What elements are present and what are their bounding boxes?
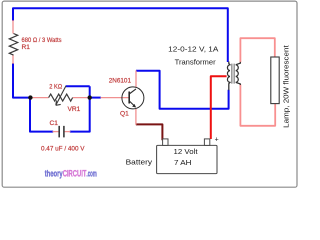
wire: blue wiper horizontal: [66, 85, 90, 87]
svg-text:Q1: Q1: [120, 110, 129, 117]
node B junction dot: [88, 95, 92, 99]
lead: R1 bottom: [12, 55, 14, 64]
lead: R1 top: [12, 20, 14, 34]
lead: VR1 left: [30, 97, 48, 99]
wire: blue from R1 bottom down to node A level: [13, 63, 30, 98]
lead: Q1 emitter: [135, 109, 137, 125]
wire: top blue rail from R1 top to transformer primary top: [13, 8, 228, 62]
wire: blue C1 right up through node B to wiper level: [70, 86, 90, 131]
node A junction dot: [28, 95, 32, 99]
capacitor C1 plates: [59, 126, 64, 137]
transistor Q1 collector diagonal: [129, 89, 136, 94]
transformer T1 secondary winding (right, 3 bumps): [236, 62, 241, 85]
transformer T1 primary winding (left, 3 bumps): [227, 62, 229, 91]
svg-text:Lamp, 20W fluorescent: Lamp, 20W fluorescent: [282, 45, 291, 128]
wire: salmon lamp bottom to secondary bottom: [240, 84, 275, 125]
transistor Q1 base bar: [128, 92, 130, 104]
lead: C1 right: [64, 131, 70, 133]
svg-text:Transformer: Transformer: [175, 58, 217, 67]
svg-text:12-0-12 V, 1A: 12-0-12 V, 1A: [168, 44, 218, 53]
battery rectangle: [157, 145, 217, 173]
svg-text:680 Ω / 3 Watts: 680 Ω / 3 Watts: [22, 37, 63, 44]
svg-text:0.47 uF / 400 V: 0.47 uF / 400 V: [41, 146, 85, 153]
wire: blue collector to transformer primary bottom: [136, 71, 229, 109]
wire: blue stub node B to base lead: [90, 97, 101, 99]
svg-text:+: +: [215, 136, 219, 143]
resistor R1 zigzag: [9, 34, 17, 56]
svg-text:theory: theory: [45, 169, 64, 179]
svg-text:R1: R1: [22, 44, 31, 51]
svg-text:2 KΩ: 2 KΩ: [49, 84, 62, 91]
transformer core lines: [232, 64, 234, 84]
lead: Q1 base: [101, 97, 129, 99]
wire: blue node A down to C1 left: [30, 98, 53, 132]
wire: red battery plus to transformer tap: [211, 76, 227, 139]
transistor Q1 emitter diagonal with arrow: [129, 101, 135, 107]
svg-text:Battery: Battery: [126, 157, 153, 166]
wire: salmon secondary top to lamp: [240, 38, 274, 62]
svg-text:C1: C1: [50, 120, 59, 127]
svg-text:VR1: VR1: [68, 106, 81, 113]
lead: C1 left: [53, 131, 59, 133]
potentiometer VR1 zigzag: [49, 94, 73, 101]
lamp rectangle: [271, 57, 279, 104]
battery terminal left: [163, 139, 168, 146]
lead: VR1 right: [73, 97, 90, 99]
battery terminal right: [204, 139, 209, 146]
svg-text:2N6101: 2N6101: [109, 78, 132, 85]
transistor Q1 circle: [122, 87, 144, 109]
potentiometer VR1 wiper arrow: [56, 86, 66, 106]
svg-text:CIRCUIT: CIRCUIT: [63, 169, 87, 179]
svg-text:.com: .com: [87, 169, 97, 179]
wire: maroon emitter to battery minus: [136, 124, 163, 140]
svg-text:12 Volt: 12 Volt: [174, 147, 199, 156]
border frame: [2, 1, 297, 187]
lead: Q1 collector: [135, 70, 137, 87]
svg-text:7 AH: 7 AH: [174, 158, 192, 167]
